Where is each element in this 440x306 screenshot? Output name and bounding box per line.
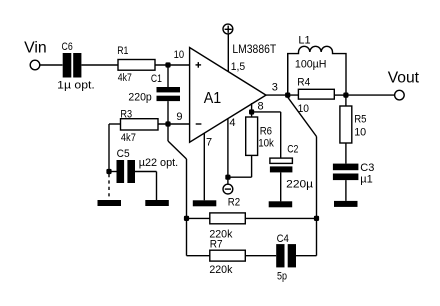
svg-text:1,5: 1,5 (231, 61, 245, 73)
svg-text:C6: C6 (62, 41, 73, 53)
svg-text:R6: R6 (260, 125, 272, 137)
svg-text:Vin: Vin (24, 40, 47, 57)
svg-text:10: 10 (174, 49, 185, 61)
svg-text:220µ: 220µ (286, 179, 314, 191)
svg-text:3: 3 (272, 82, 278, 94)
svg-text:R3: R3 (120, 109, 132, 121)
svg-text:1µ opt.: 1µ opt. (57, 80, 95, 92)
svg-text:8: 8 (258, 100, 264, 112)
svg-text:Vout: Vout (388, 69, 420, 86)
svg-text:220p: 220p (128, 91, 151, 103)
svg-text:R1: R1 (117, 45, 128, 57)
svg-text:µ1: µ1 (360, 174, 372, 186)
svg-text:C5: C5 (117, 148, 130, 160)
svg-text:10: 10 (354, 127, 366, 139)
svg-text:C4: C4 (277, 233, 289, 245)
svg-text:C1: C1 (151, 73, 162, 85)
svg-text:R4: R4 (297, 77, 310, 89)
svg-text:R5: R5 (354, 113, 366, 125)
svg-text:4k7: 4k7 (118, 72, 132, 84)
svg-text:4k7: 4k7 (121, 132, 136, 144)
svg-text:A1: A1 (204, 90, 222, 107)
svg-text:LM3886T: LM3886T (232, 42, 276, 56)
svg-text:L1: L1 (298, 35, 310, 47)
svg-text:9: 9 (176, 111, 182, 123)
svg-text:R7: R7 (210, 239, 223, 251)
svg-text:4: 4 (229, 117, 235, 129)
svg-text:10: 10 (298, 103, 309, 115)
svg-text:220k: 220k (209, 264, 232, 276)
svg-text:7: 7 (206, 136, 212, 148)
svg-text:C2: C2 (287, 144, 298, 156)
svg-text:C3: C3 (360, 162, 374, 174)
svg-text:5p: 5p (277, 270, 287, 282)
svg-text:100µH: 100µH (295, 58, 327, 70)
svg-text:10k: 10k (258, 137, 274, 149)
svg-text:R2: R2 (228, 197, 240, 209)
svg-text:µ22 opt.: µ22 opt. (139, 157, 179, 169)
